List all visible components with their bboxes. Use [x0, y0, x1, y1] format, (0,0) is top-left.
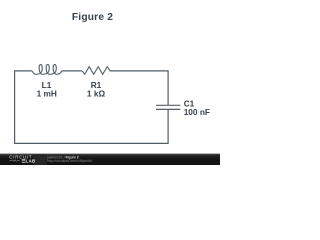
svg-text:http://circuitlab.com/c/f5pkhb: http://circuitlab.com/c/f5pkhb6: [47, 159, 92, 163]
resistor R1 zigzag: [82, 67, 110, 75]
svg-text:☰LAB: ☰LAB: [22, 158, 36, 163]
wire top-left segment: [14, 70, 32, 72]
logo zigzag wire: [10, 160, 20, 162]
wire bottom horizontal: [14, 142, 169, 144]
logo badge light tab: [33, 154, 46, 165]
wire right vertical lower: [167, 110, 169, 143]
wire top-right segment: [110, 70, 169, 72]
wire between inductor and resistor: [62, 70, 82, 72]
wire right vertical upper: [167, 70, 169, 105]
svg-text:1 mH: 1 mH: [37, 88, 57, 98]
svg-text:100 nF: 100 nF: [184, 107, 210, 117]
capacitor C1 top plate: [156, 104, 180, 106]
wire left vertical: [14, 71, 16, 143]
capacitor C1 bottom plate: [156, 108, 180, 110]
svg-text:Figure 2: Figure 2: [72, 12, 113, 23]
svg-text:1 kΩ: 1 kΩ: [87, 88, 106, 98]
inductor L1 coil: [32, 65, 63, 75]
